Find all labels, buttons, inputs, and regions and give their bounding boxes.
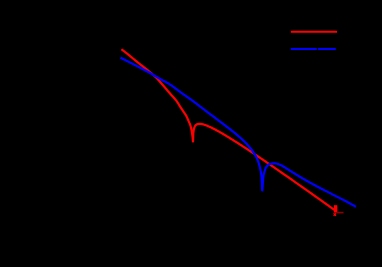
red curve (series 1) with cusp at x=193 <box>121 49 336 211</box>
blue curve (series 2) with cusp at x=262 <box>120 58 356 207</box>
legend blue line (with tiny gap) <box>291 48 317 50</box>
red end vertical blob <box>334 205 337 212</box>
small red x marker below red end <box>334 213 336 216</box>
legend red line <box>291 31 337 33</box>
dark red dash at red end <box>337 212 344 214</box>
